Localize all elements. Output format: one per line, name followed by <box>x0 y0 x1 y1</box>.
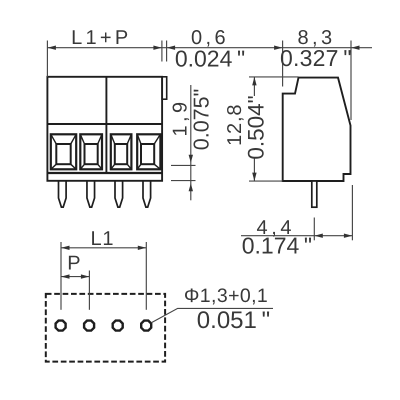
svg-text:L1+P: L1+P <box>71 27 131 49</box>
extension ticks 0,6 <box>161 41 163 62</box>
center divider <box>105 77 107 173</box>
svg-text:Φ1,3+0,1: Φ1,3+0,1 <box>184 285 268 307</box>
svg-text:P: P <box>67 253 82 275</box>
dimension 1,9 / 0.075 inch (front right) <box>171 85 196 200</box>
extension lines 8,3 <box>282 41 284 87</box>
side view pin <box>312 181 317 207</box>
wire entry openings row <box>51 134 161 169</box>
svg-text:1,9: 1,9 <box>170 98 192 136</box>
extension line L1+P left <box>46 41 48 77</box>
opening 1 <box>51 134 76 169</box>
leader for hole diameter <box>151 308 273 322</box>
svg-text:0.174 ": 0.174 " <box>242 233 312 259</box>
svg-text:0.327 ": 0.327 " <box>280 45 352 71</box>
svg-text:0.051 ": 0.051 " <box>197 307 270 334</box>
horizontal shoulder line <box>47 123 162 125</box>
side view profile <box>283 78 351 181</box>
pin 2 front <box>87 180 95 207</box>
drill holes (4x) <box>56 321 152 331</box>
front view body <box>47 77 166 181</box>
pin 4 front <box>143 180 151 207</box>
svg-text:0.504": 0.504" <box>243 95 268 159</box>
top dimension line <box>47 41 372 121</box>
pin 3 front <box>115 180 123 207</box>
arrowheads top <box>47 46 359 50</box>
opening 2 <box>80 134 102 169</box>
opening 3 <box>111 134 132 169</box>
dimension 12,8 / 0.504 inch (side height) <box>249 77 299 181</box>
pin 1 front <box>59 180 67 207</box>
shelf line above bottom <box>47 172 162 174</box>
tab top-right <box>162 77 167 99</box>
plan dimension lines <box>61 242 273 323</box>
opening 4 <box>137 134 160 169</box>
svg-text:0.024 ": 0.024 " <box>175 46 245 72</box>
dimension 4,4 / 0.174 inch (pin offset) <box>241 185 352 240</box>
svg-text:L1: L1 <box>90 228 114 250</box>
drilling plan dashed outline <box>46 294 165 362</box>
svg-text:0.075": 0.075" <box>190 89 214 150</box>
front view solder pins <box>59 180 151 207</box>
